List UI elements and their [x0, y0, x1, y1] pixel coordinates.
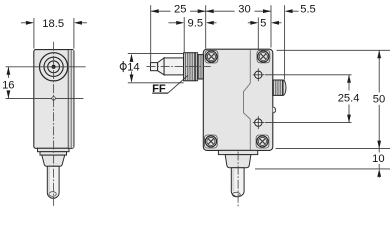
- neck flange A front: [38, 148, 70, 151]
- extension line knurl left: [183, 17, 185, 52]
- screw boss BR: [256, 135, 269, 148]
- neck taper front: [42, 155, 65, 166]
- svg-text:14: 14: [127, 61, 139, 73]
- dimension 30: [206, 4, 271, 16]
- svg-text:5: 5: [260, 18, 266, 30]
- body front view: [34, 50, 74, 149]
- dimension 5.5: [285, 4, 316, 16]
- screw boss BL: [204, 135, 217, 148]
- dimension 50: [276, 50, 390, 148]
- dimension 10: [255, 149, 390, 178]
- screw TR: [258, 51, 269, 62]
- svg-text:25: 25: [174, 4, 186, 16]
- plunger cone side: [158, 58, 165, 75]
- horizontal centerline side: [147, 66, 211, 68]
- edge bump side: [273, 107, 276, 113]
- body side view: [203, 49, 272, 150]
- dimension 18.5: [21, 18, 87, 49]
- svg-text:50: 50: [373, 94, 385, 106]
- screw boss TL: [205, 50, 218, 63]
- mounting hole cross lower: [253, 116, 264, 129]
- neck taper side: [225, 155, 251, 168]
- knurled bushing 2: [198, 55, 204, 79]
- svg-text:5.5: 5.5: [300, 4, 316, 16]
- dimension 9.5: [169, 18, 217, 30]
- plunger shaft side: [164, 58, 184, 75]
- dimension 16: [2, 67, 14, 99]
- screw boss TR: [257, 50, 270, 63]
- svg-text:9.5: 9.5: [188, 18, 204, 30]
- dimension 5: [248, 18, 282, 30]
- head/body seam line front: [6, 97, 84, 101]
- dimension phi14: [120, 54, 183, 83]
- svg-text:25.4: 25.4: [338, 92, 360, 104]
- knurled bushing 1: [184, 53, 196, 81]
- neck flange side: [218, 150, 257, 154]
- extension line body left: [205, 5, 207, 48]
- neck flange B front: [40, 152, 67, 155]
- adjuster knob side: [273, 80, 286, 95]
- label FF: [152, 75, 188, 95]
- screw BR: [257, 136, 268, 147]
- horizontal centerline front: [6, 66, 86, 68]
- screw BL: [205, 136, 216, 147]
- svg-text:16: 16: [2, 79, 14, 91]
- vertical centerline side: [237, 152, 239, 208]
- plunger circles front: [40, 53, 68, 81]
- dimension 25.4: [265, 75, 360, 123]
- svg-text:30: 30: [238, 4, 250, 16]
- extension line body right: [270, 5, 272, 47]
- cable side: [231, 168, 244, 197]
- plunger tip cap side: [151, 63, 158, 71]
- extension line knob tip: [284, 5, 286, 80]
- mounting hole cross upper: [253, 68, 264, 81]
- svg-text:18.5: 18.5: [42, 18, 64, 30]
- extension line plunger tip: [150, 5, 152, 62]
- bushing ring: [196, 53, 198, 81]
- vertical centerline front: [53, 42, 55, 208]
- screw TL: [206, 51, 217, 62]
- cable front: [47, 166, 59, 198]
- cover seam side: [244, 49, 251, 150]
- svg-text:10: 10: [372, 153, 384, 165]
- extension line hole center: [257, 18, 259, 50]
- dimension 25: [151, 4, 206, 16]
